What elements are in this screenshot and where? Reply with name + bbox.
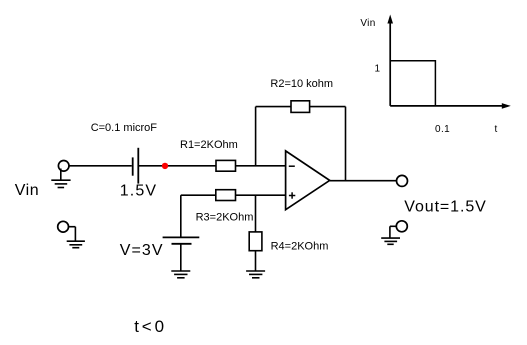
wire (battery to ground) [180, 244, 182, 271]
resistor R1 [216, 160, 236, 171]
label R3 value [196, 211, 254, 223]
wire (feedback tap up from inverting input) [255, 107, 257, 166]
op-amp inverting input marker (-) [289, 165, 295, 167]
wire (feedback top left segment) [256, 106, 291, 108]
graph label Vin [360, 18, 375, 29]
svg-text:R2=10 kohm: R2=10 kohm [270, 78, 333, 90]
ground (output reference ground) [381, 238, 400, 244]
wire (R1 to op-amp inverting input) [236, 165, 286, 167]
op-amp non-inverting input marker (+) [289, 192, 295, 198]
resistor R4 [249, 232, 262, 251]
label R4 value [271, 240, 329, 252]
graph label 0.1 [435, 124, 450, 135]
graph x-axis (t) [390, 103, 511, 109]
capacitor C (charged cell symbol, C=0.1 microF / 1.5V) [133, 148, 139, 184]
output terminal Vout [397, 175, 408, 186]
graph input pulse waveform [390, 61, 435, 106]
label Vin (input) [15, 182, 39, 199]
graph label 1 [375, 64, 381, 75]
wire (feedback down to output) [345, 107, 347, 181]
ground (left floating terminal ground) [67, 241, 85, 248]
wire (R3 to op-amp non-inverting input) [236, 194, 286, 196]
output reference terminal [396, 221, 407, 232]
label t<0 (condition) [134, 317, 167, 336]
wire (left floating terminal to ground) [69, 227, 76, 242]
label C value [91, 122, 158, 134]
label V=3V (battery) [120, 242, 164, 259]
wire (capacitor to R1) [138, 165, 216, 167]
wire (non-inverting input line from V=3V branch through R3) [181, 194, 216, 196]
ground (input terminal ground) [51, 169, 70, 188]
graph label t [495, 124, 498, 135]
label R2 value [270, 78, 333, 90]
wire (feedback top right segment) [310, 106, 346, 108]
svg-text:C=0.1 microF: C=0.1 microF [91, 122, 158, 134]
svg-text:R1=2KOhm: R1=2KOhm [180, 139, 238, 151]
op-amp U1 [286, 151, 330, 210]
wire (op-amp output to output terminal) [330, 180, 397, 182]
label 1.5V (capacitor voltage) [120, 182, 157, 199]
svg-text:V=3V: V=3V [120, 242, 164, 259]
svg-text:0.1: 0.1 [435, 124, 450, 135]
node (red junction dot) [162, 163, 168, 169]
svg-text:Vout=1.5V: Vout=1.5V [404, 198, 486, 215]
svg-text:1.5V: 1.5V [120, 182, 157, 199]
wire (R4 to ground) [255, 251, 257, 271]
svg-text:R3=2KOhm: R3=2KOhm [196, 211, 254, 223]
svg-text:t<0: t<0 [134, 317, 167, 336]
resistor R2 [291, 101, 310, 113]
label R1 value [180, 139, 238, 151]
input terminal Vin [58, 161, 69, 172]
graph y-axis (Vin) [387, 15, 393, 106]
left floating reference terminal [58, 221, 69, 232]
label Vout=1.5V (output) [404, 198, 486, 215]
ground (battery V=3V ground) [171, 271, 190, 278]
svg-text:R4=2KOhm: R4=2KOhm [271, 240, 329, 252]
svg-text:Vin: Vin [15, 182, 39, 199]
battery V1 (V=3V) [163, 237, 200, 243]
wire (V=3V branch down) [180, 195, 182, 237]
resistor R3 [216, 190, 236, 201]
ground (R4 ground) [246, 271, 265, 278]
svg-text:1: 1 [375, 64, 381, 75]
svg-text:t: t [495, 124, 498, 135]
svg-text:Vin: Vin [360, 18, 375, 29]
wire (input terminal to capacitor) [69, 165, 132, 167]
wire (R4 branch down from non-inverting line) [255, 195, 257, 232]
wire (output reference terminal to ground) [390, 226, 396, 238]
